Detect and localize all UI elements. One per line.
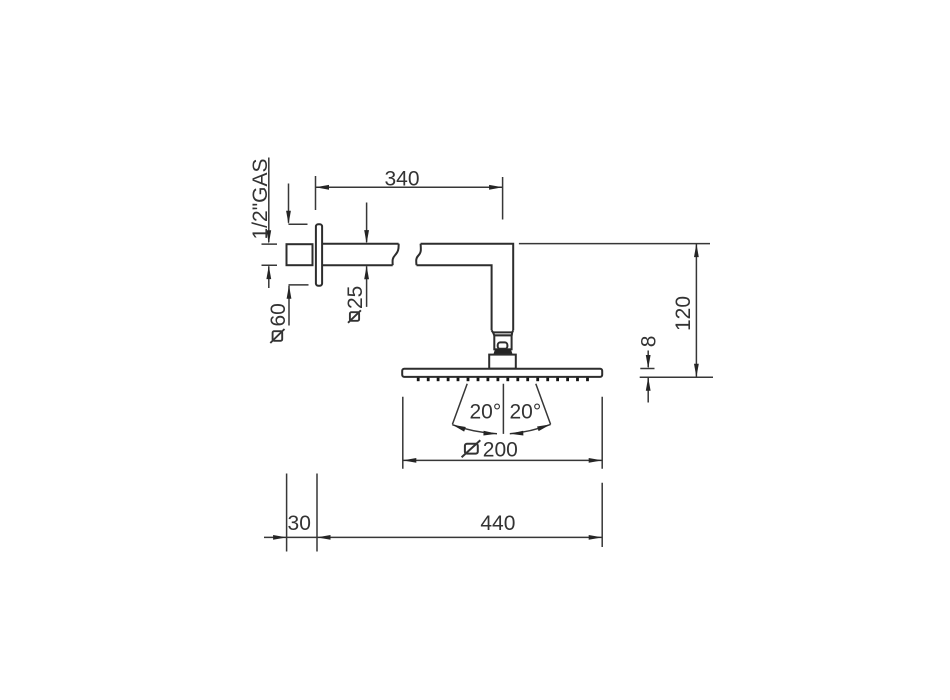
shower arm horizontal left segment [322,244,399,266]
shower arm right segment with elbow [417,244,514,331]
dim 8 [637,336,660,403]
svg-text:8: 8 [637,336,660,348]
wall flange ø60 [316,224,322,285]
spray cone lines [452,384,550,434]
svg-text:1/2"GAS: 1/2"GAS [249,159,272,240]
wall stub 1/2" GAS thread [287,244,313,265]
svg-text:20°: 20° [470,400,502,423]
arm collar [492,330,514,335]
spray angle arc right [510,424,551,433]
dim 1/2"GAS [249,158,277,289]
dim ø60 [267,184,308,344]
dim 340 [316,167,503,219]
swivel nut [494,335,511,349]
dim ø25 [344,203,369,323]
pipe break symbol left [393,244,399,266]
nut window [498,342,508,348]
svg-text:120: 120 [672,296,695,331]
dim 30 and 440 [264,474,602,552]
mounting boss [489,355,516,369]
svg-text:25: 25 [344,286,367,309]
svg-text:440: 440 [480,512,515,535]
ball joint dark seal [493,349,512,354]
pipe break symbol right [416,244,421,266]
spray nozzles [417,378,589,382]
svg-text:200: 200 [483,439,518,462]
svg-text:340: 340 [384,167,419,190]
svg-text:20°: 20° [510,400,542,423]
shower head disc [402,369,602,377]
svg-text:60: 60 [267,303,290,326]
svg-text:30: 30 [288,512,311,535]
dim 120 [519,244,713,378]
spray angle arc left [452,425,497,434]
dim Ø200 [403,397,602,469]
